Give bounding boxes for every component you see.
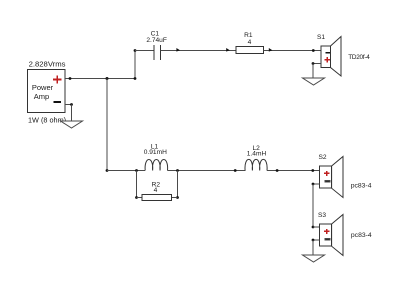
junction dot bottom corner [134, 77, 137, 80]
wire R2 left leg [136, 171, 138, 198]
power amp source V1 box [28, 70, 66, 113]
wire C1 to R1 [160, 50, 236, 52]
wire S1 to ground [312, 64, 314, 79]
junction dot at V1+ pin [69, 77, 72, 80]
wire R1 to S1 [263, 50, 320, 52]
svg-text:4: 4 [154, 187, 158, 194]
resistor R2 [142, 194, 172, 200]
junction dot at S1 top pin [312, 49, 315, 52]
junction dot at S1 bottom pin [312, 62, 315, 65]
wire S2 bottom pin stub [313, 183, 319, 185]
junction dot top corner [134, 49, 137, 52]
speaker S1 [321, 37, 341, 77]
wire tweeter branch to C1 [135, 50, 154, 52]
junction dot at S2 top pin [311, 169, 314, 172]
wire R2 right leg [177, 171, 179, 198]
svg-text:2.828Vrms: 2.828Vrms [29, 59, 66, 68]
svg-text:pc83-4: pc83-4 [351, 182, 372, 189]
wire S3 to ground [312, 240, 314, 255]
svg-text:2.74uF: 2.74uF [146, 37, 167, 44]
resistor R1 [236, 47, 263, 54]
svg-text:Amp: Amp [34, 92, 49, 101]
speaker S3 [319, 215, 343, 256]
svg-text:0.91mH: 0.91mH [144, 149, 167, 156]
wire S3 bottom pin stub [313, 239, 319, 241]
junction dot woofer corner [106, 169, 109, 172]
svg-text:S2: S2 [318, 154, 326, 161]
junction dot L1 right node [176, 169, 179, 172]
wire L2 to S2 [267, 170, 319, 172]
inductor L2 [245, 159, 267, 170]
speaker S2 [319, 157, 343, 198]
svg-text:4: 4 [248, 39, 252, 46]
wire S3 top pin stub [313, 226, 319, 228]
V1 minus terminal mark [54, 101, 61, 103]
junction dot at V1- pin [70, 103, 73, 106]
wire V1+ output to corner node [65, 78, 135, 80]
current arrow before R1 [226, 48, 230, 52]
wire R2 bottom-left rail [137, 197, 143, 199]
V1 plus terminal mark [53, 75, 61, 83]
wire S2 to S3 [312, 184, 314, 227]
current arrow after C1 [176, 48, 180, 52]
svg-text:S1: S1 [317, 34, 325, 41]
wire L1 to L2 [168, 170, 246, 172]
wire R2 bottom-right rail [172, 197, 178, 199]
junction dot R2 bottom-right [176, 196, 179, 199]
current dot before L2 [234, 169, 237, 172]
wire S1 bottom pin stub [313, 63, 321, 65]
svg-text:1.4mH: 1.4mH [247, 150, 267, 157]
wire node A down to woofer branch [106, 79, 108, 171]
ground (S3) [303, 255, 325, 262]
svg-text:1W (8 ohm): 1W (8 ohm) [28, 115, 66, 124]
junction node A (split to woofer branch) [106, 77, 109, 80]
wire V1- stub [65, 104, 72, 106]
current dot after L2 [276, 169, 279, 172]
current arrow after R1 [269, 48, 273, 52]
ground (S1) [303, 78, 325, 85]
inductor L1 [145, 160, 168, 171]
svg-text:pc83-4: pc83-4 [351, 232, 372, 239]
junction dot at S2 bottom pin [312, 183, 315, 186]
junction dot at S3 bottom pin [312, 239, 315, 242]
svg-text:TD20f-4: TD20f-4 [348, 54, 370, 61]
wire corner vertical up to tweeter branch [134, 51, 136, 79]
capacitor C1 plates [154, 45, 160, 60]
junction dot at S3 top pin [312, 226, 315, 229]
junction dot L1 left node [135, 169, 138, 172]
junction dot R2 bottom-left [135, 196, 138, 199]
svg-text:S3: S3 [318, 212, 326, 219]
ground (amp) [61, 121, 83, 128]
wire V1- down to ground [71, 105, 73, 122]
wire woofer branch to L1 [107, 170, 145, 172]
svg-text:Power: Power [32, 83, 54, 92]
